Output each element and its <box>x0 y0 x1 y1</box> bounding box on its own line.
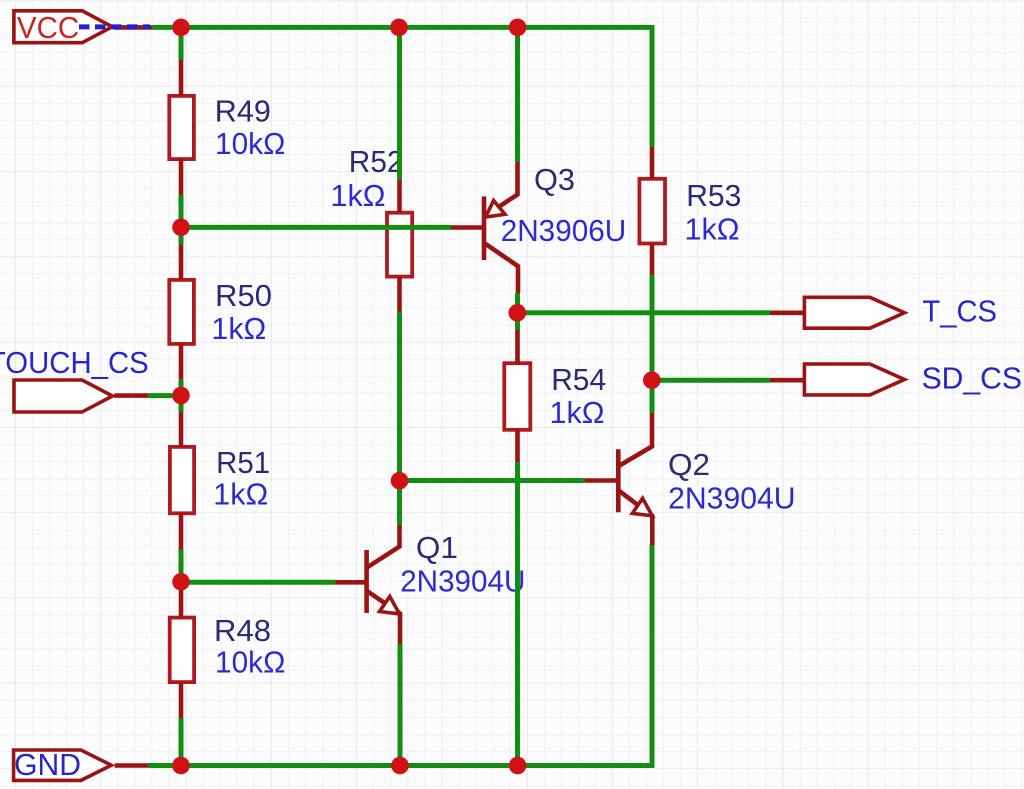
pin R54 top <box>515 330 520 364</box>
transistor Q2 base bar <box>616 449 621 512</box>
transistor Q3 emitter <box>485 162 518 216</box>
svg-text:Q2: Q2 <box>668 448 710 482</box>
svg-text:TOUCH_CS: TOUCH_CS <box>0 346 149 380</box>
svg-text:R54: R54 <box>551 363 606 397</box>
pin GND flag stub <box>115 763 148 768</box>
svg-text:2N3906U: 2N3906U <box>501 214 627 248</box>
pin R49 top <box>179 60 184 96</box>
junction node TOUCH_CS <box>172 387 190 405</box>
junction GND rail mid <box>391 757 409 775</box>
junction node Q1 collector <box>391 472 409 490</box>
flag SD_CS <box>804 364 904 395</box>
junction node SD_CS <box>643 371 661 389</box>
svg-text:R51: R51 <box>216 446 270 480</box>
junction node T_CS <box>509 304 527 322</box>
junction VCC rail mid <box>390 19 408 37</box>
transistor Q2 emitter <box>619 491 653 546</box>
pin R48 top <box>179 582 184 618</box>
pin R51 top <box>179 412 184 448</box>
transistor Q3 base bar <box>482 196 487 260</box>
svg-text:1kΩ: 1kΩ <box>550 396 605 430</box>
svg-text:2N3904U: 2N3904U <box>400 564 525 598</box>
transistor Q3 emitter arrow <box>486 201 505 217</box>
wire left rail segment 5 <box>179 718 184 766</box>
wire TOUCH_CS stub <box>148 393 181 398</box>
wire Q1 base row <box>180 580 336 585</box>
svg-text:T_CS: T_CS <box>922 295 997 329</box>
svg-text:R48: R48 <box>214 614 271 648</box>
pin T_CS flag stub <box>770 310 804 315</box>
transistor Q3 base pin <box>451 225 484 230</box>
pin R52 bottom <box>397 277 402 313</box>
svg-text:R53: R53 <box>686 179 741 213</box>
pin R51 bottom <box>179 513 184 549</box>
pin R52 top <box>397 179 402 213</box>
svg-text:1kΩ: 1kΩ <box>685 212 740 246</box>
wire Q3 collector to T_CS node <box>515 293 520 330</box>
svg-text:R49: R49 <box>215 94 271 128</box>
transistor Q1 emitter <box>367 591 400 644</box>
transistor Q2 emitter arrow <box>632 498 652 516</box>
flag TOUCH_CS <box>14 380 113 412</box>
transistor Q2 base pin <box>585 478 619 483</box>
wire T_CS row <box>517 310 770 315</box>
pin SD_CS flag stub <box>770 378 804 383</box>
VCC highlighted net dashes <box>79 24 150 29</box>
svg-text:GND: GND <box>14 748 81 782</box>
flag GND <box>14 750 112 780</box>
junction GND rail left <box>172 757 190 775</box>
resistor R54 <box>504 363 530 430</box>
svg-text:1kΩ: 1kΩ <box>213 477 268 511</box>
transistor Q1 collector <box>367 525 400 568</box>
svg-text:2N3904U: 2N3904U <box>668 482 796 516</box>
wire R52 top vertical <box>397 25 402 179</box>
svg-text:SD_CS: SD_CS <box>922 362 1022 396</box>
resistor R52 <box>387 213 412 277</box>
svg-text:Q1: Q1 <box>416 531 458 565</box>
wire Q3 emitter top vertical <box>515 25 520 162</box>
svg-text:R52: R52 <box>349 145 404 179</box>
wire VCC top rail <box>152 27 652 147</box>
pin R50 top <box>179 245 184 281</box>
flag T_CS <box>804 297 904 328</box>
junction node R49/R50 <box>172 219 190 237</box>
resistor R51 <box>170 447 194 513</box>
transistor Q1 base pin <box>336 580 368 585</box>
wire Q1 emitter to GND <box>398 644 403 766</box>
svg-text:10kΩ: 10kΩ <box>215 127 285 161</box>
svg-text:1kΩ: 1kΩ <box>331 179 386 213</box>
junction VCC rail right <box>509 19 527 37</box>
junction node R51/R48 <box>172 573 190 591</box>
wire SD_CS row <box>652 378 770 383</box>
transistor Q1 emitter arrow <box>380 596 400 614</box>
transistor Q1 base bar <box>364 550 369 613</box>
resistor R49 <box>169 96 194 159</box>
pin VCC flag stub <box>114 25 152 30</box>
wire R53 bottom to SD_CS node <box>650 275 655 413</box>
wire R52 bottom to node <box>397 312 402 525</box>
wire left rail segment 3 <box>179 380 184 412</box>
wire R54 bottom to GND <box>515 462 520 766</box>
resistor R50 <box>169 280 194 344</box>
svg-text:VCC: VCC <box>17 11 79 45</box>
svg-text:1kΩ: 1kΩ <box>211 312 266 346</box>
pin TOUCH_CS flag stub <box>114 393 148 398</box>
wire left rail segment 2 <box>179 195 184 245</box>
pin R49 bottom <box>179 159 184 195</box>
pin R50 bottom <box>179 344 184 380</box>
svg-text:Q3: Q3 <box>534 163 575 197</box>
transistor Q2 collector <box>619 413 652 466</box>
wire left rail segment 4 <box>179 549 184 582</box>
transistor Q3 collector <box>485 244 518 294</box>
svg-text:10kΩ: 10kΩ <box>215 645 285 679</box>
wire node to Q2 base <box>400 478 586 483</box>
wire GND bottom rail <box>148 545 652 766</box>
wire left rail segment 1 <box>179 25 184 60</box>
pin R48 bottom <box>179 682 184 718</box>
junction VCC rail left <box>172 19 190 37</box>
pin R54 bottom <box>515 430 520 462</box>
junction GND rail right <box>509 757 527 775</box>
pin R53 bottom <box>650 244 655 276</box>
resistor R53 <box>639 179 665 244</box>
pin R53 top <box>650 147 655 179</box>
svg-text:R50: R50 <box>215 279 272 313</box>
resistor R48 <box>170 618 194 683</box>
wire mid base row to Q3 <box>181 225 451 230</box>
flag VCC <box>14 11 112 43</box>
